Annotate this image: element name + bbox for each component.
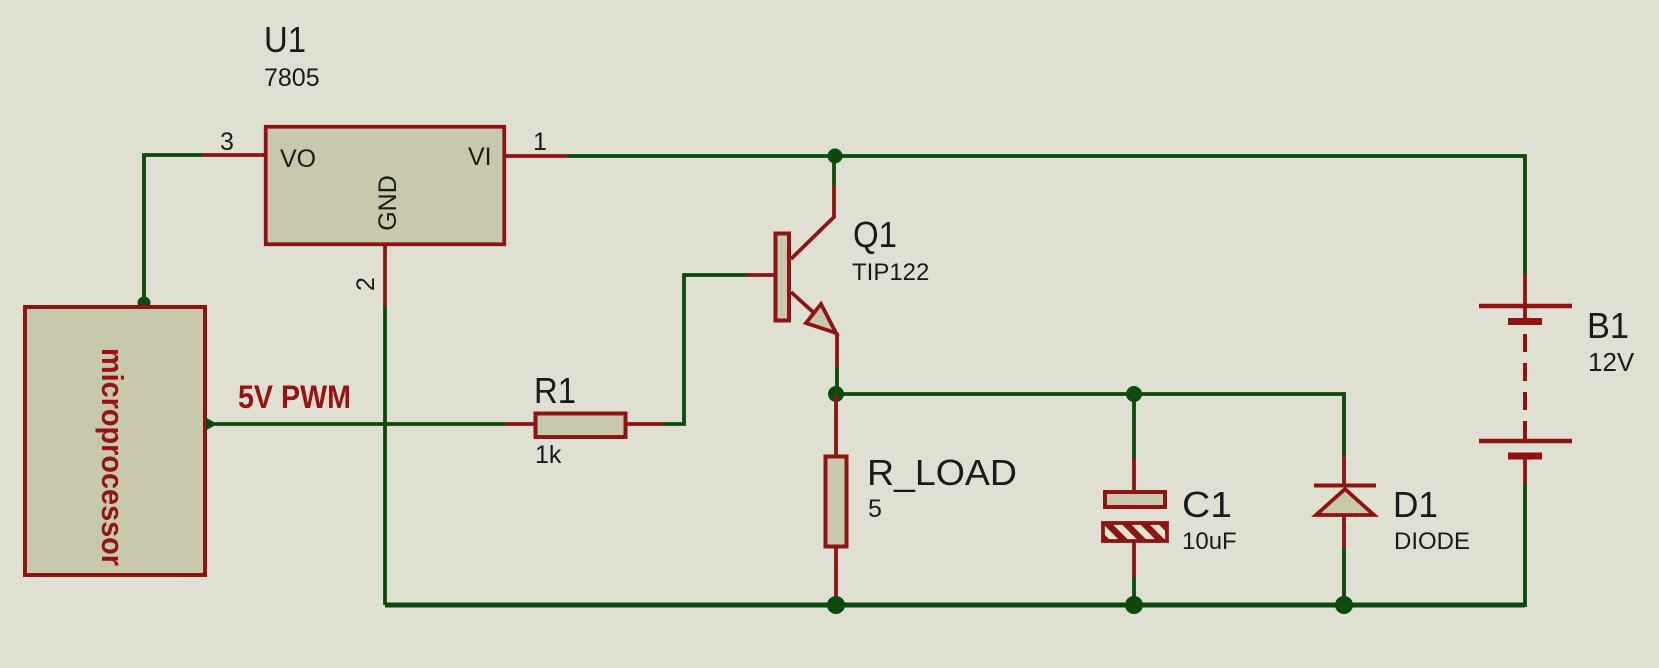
microprocessor box <box>25 307 205 575</box>
wire VO net: U1 pin3 to microprocessor top pin <box>144 155 203 303</box>
battery B1 negative stub <box>1523 458 1527 483</box>
wire 5V PWM: microprocessor to R1 <box>212 422 505 426</box>
label Q1 <box>853 214 897 255</box>
label C1 <box>1182 484 1232 525</box>
svg-text:R_LOAD: R_LOAD <box>867 452 1017 493</box>
value 12V <box>1588 347 1635 377</box>
wire R_LOAD to ground rail <box>834 599 838 605</box>
pin number 1 <box>533 128 547 156</box>
label D1 <box>1393 484 1438 525</box>
svg-text:D1: D1 <box>1393 484 1438 525</box>
U1 pin 3 stub <box>203 153 266 157</box>
U1 pin 2 stub <box>383 245 387 307</box>
junction dot D1 ground <box>1335 596 1353 614</box>
diode D1 anode stub <box>1342 516 1346 548</box>
junction dot R_LOAD ground <box>827 596 845 614</box>
wire D1 to ground rail <box>1342 548 1346 605</box>
pin number 2 <box>352 277 380 291</box>
resistor R1 left stub <box>505 422 535 426</box>
microprocessor output terminal arrow <box>206 418 217 431</box>
diode D1 body triangle <box>1316 489 1374 515</box>
value TIP122 <box>852 259 929 286</box>
diode D1 cathode bar <box>1314 484 1376 488</box>
svg-text:TIP122: TIP122 <box>852 259 929 286</box>
wire VI net: pin1 to battery positive <box>568 156 1525 274</box>
wire collector to top rail <box>832 156 836 185</box>
U1 pin name GND <box>374 175 402 231</box>
junction dot load node <box>828 386 844 402</box>
svg-text:10uF: 10uF <box>1182 528 1237 555</box>
value 7805 <box>264 64 320 92</box>
pin number 3 <box>220 128 234 156</box>
battery B1 positive stub <box>1523 274 1527 318</box>
svg-text:7805: 7805 <box>264 64 320 92</box>
value 10uF <box>1182 528 1237 555</box>
svg-text:2: 2 <box>352 277 380 291</box>
U1 pin 1 stub <box>504 154 568 158</box>
wire emitter to load node <box>835 367 839 394</box>
svg-text:VO: VO <box>280 145 316 173</box>
label U1 <box>264 19 306 60</box>
svg-text:B1: B1 <box>1587 305 1629 346</box>
label R_LOAD <box>867 452 1017 493</box>
battery B1 bottom cell short plate <box>1508 453 1542 460</box>
junction dot C1 ground <box>1125 596 1143 614</box>
wire C1 to ground rail <box>1132 577 1136 605</box>
svg-text:5: 5 <box>868 495 882 523</box>
wire GND net vertical <box>383 307 387 605</box>
capacitor C1 bottom plate (polarized, hatched) <box>1103 523 1167 541</box>
svg-text:Q1: Q1 <box>853 214 897 255</box>
value 1k <box>535 441 562 469</box>
svg-text:1k: 1k <box>535 441 562 469</box>
battery B1 top cell long plate <box>1479 304 1572 309</box>
wire load node rail to D1 corner <box>836 394 1344 456</box>
transistor Q1 base stub <box>747 273 774 277</box>
resistor R1 right stub <box>627 422 663 426</box>
svg-text:GND: GND <box>374 175 402 231</box>
wire GND bottom rail <box>385 603 1525 608</box>
wire battery negative to ground rail <box>1523 483 1527 607</box>
wire C1 to load rail <box>1132 394 1136 458</box>
value DIODE <box>1394 528 1470 555</box>
svg-text:R1: R1 <box>534 370 576 411</box>
diode D1 cathode stub <box>1342 456 1346 484</box>
svg-text:12V: 12V <box>1588 347 1635 377</box>
svg-text:3: 3 <box>220 128 234 156</box>
transistor Q1 emitter arrow <box>806 304 836 333</box>
svg-text:DIODE: DIODE <box>1394 528 1470 555</box>
battery B1 internal dashed link <box>1523 334 1527 440</box>
resistor R_LOAD top stub <box>834 394 838 456</box>
svg-text:microprocessor: microprocessor <box>95 348 130 566</box>
transistor Q1 base bar <box>776 234 790 321</box>
capacitor C1 bottom stub <box>1132 542 1136 577</box>
wire R1 to Q1 base <box>663 275 747 424</box>
junction dot C1 top <box>1126 386 1142 402</box>
U1 pin name VO <box>280 145 316 173</box>
capacitor C1 top plate <box>1105 492 1165 507</box>
battery B1 top cell short plate <box>1508 318 1542 325</box>
battery B1 bottom cell long plate <box>1479 439 1572 444</box>
junction dot collector / top rail <box>828 149 843 164</box>
resistor R_LOAD body <box>826 457 847 547</box>
value 5 <box>868 495 882 523</box>
junction dot at microprocessor top pin <box>138 297 151 310</box>
label B1 <box>1587 305 1629 346</box>
svg-text:U1: U1 <box>264 19 306 60</box>
svg-text:5V PWM: 5V PWM <box>238 379 351 415</box>
U1 7805 regulator body <box>266 127 505 245</box>
resistor R_LOAD bottom stub <box>834 547 838 599</box>
resistor R1 body <box>536 414 626 438</box>
transistor Q1 emitter pin <box>791 292 837 367</box>
U1 pin name VI <box>468 143 492 171</box>
svg-text:C1: C1 <box>1182 484 1232 525</box>
microprocessor label <box>95 348 130 566</box>
transistor Q1 collector pin <box>791 185 834 259</box>
svg-text:VI: VI <box>468 143 492 171</box>
label R1 <box>534 370 576 411</box>
svg-text:1: 1 <box>533 128 547 156</box>
capacitor C1 top stub <box>1132 458 1136 490</box>
net label 5V PWM <box>238 379 351 415</box>
